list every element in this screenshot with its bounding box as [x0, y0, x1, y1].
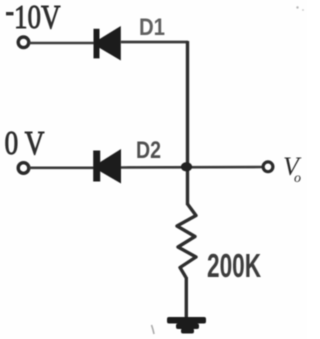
- wire: [186, 41, 189, 205]
- stray scan speck top right: [296, 6, 298, 8]
- terminal Vo output: [263, 162, 273, 172]
- svg-text:D1: D1: [139, 14, 165, 41]
- svg-text:10V: 10V: [14, 0, 61, 36]
- wire: [121, 166, 263, 169]
- diode D2: [93, 149, 121, 184]
- label Vo: [283, 152, 302, 186]
- wire: [29, 167, 94, 170]
- wire: [29, 42, 94, 45]
- wire: [121, 41, 188, 44]
- terminal -10V input: [18, 37, 29, 48]
- junction node: [181, 162, 192, 171]
- diode D1: [94, 26, 121, 61]
- wire: [185, 277, 188, 318]
- svg-text:200K: 200K: [207, 247, 261, 284]
- svg-text:D2: D2: [136, 137, 161, 164]
- svg-text:o: o: [294, 171, 301, 186]
- terminal 0V input: [18, 163, 29, 174]
- label -10V: [6, 12, 14, 15]
- stray scan mark near ground: [152, 325, 155, 334]
- ground: [167, 317, 206, 334]
- resistor 200K: [177, 204, 196, 278]
- svg-text:0 V: 0 V: [5, 125, 45, 162]
